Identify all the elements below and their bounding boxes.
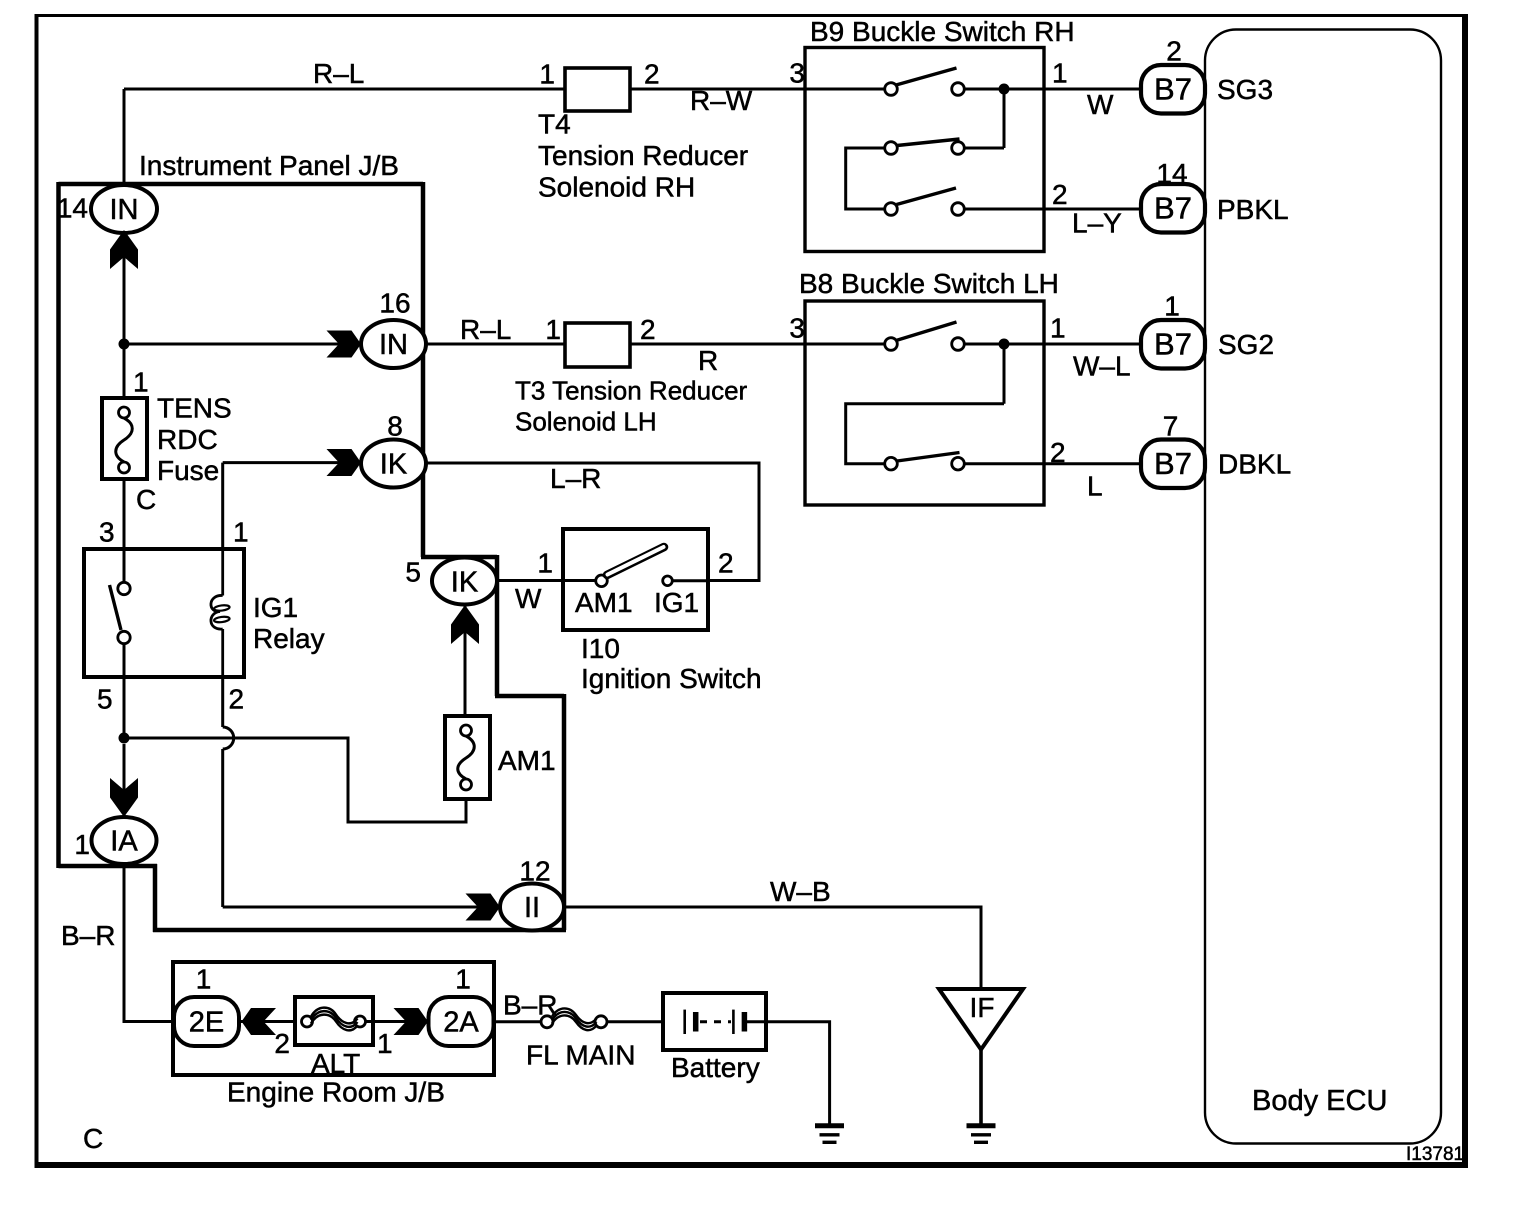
node B8 junction	[999, 339, 1010, 350]
svg-text:RDC: RDC	[157, 424, 218, 455]
wire FL MAIN to battery	[607, 1020, 684, 1023]
svg-text:2: 2	[718, 547, 734, 578]
wire R	[630, 343, 885, 346]
ignition switch I10 box	[563, 529, 708, 630]
wire B9 node to middle	[965, 89, 1142, 148]
svg-text:IG1: IG1	[253, 592, 298, 623]
svg-text:T3 Tension Reducer: T3 Tension Reducer	[515, 376, 748, 406]
svg-text:Tension Reducer: Tension Reducer	[538, 140, 748, 171]
Body ECU box	[1205, 30, 1441, 1144]
arrow down into IA	[110, 778, 138, 817]
connector 2E	[174, 964, 239, 1047]
wire IK8 row	[223, 463, 361, 549]
svg-text:3: 3	[789, 312, 805, 343]
connector IK 5	[405, 557, 497, 605]
svg-text:IK: IK	[380, 449, 408, 481]
svg-text:DBKL: DBKL	[1218, 449, 1291, 480]
svg-text:1: 1	[377, 1028, 393, 1059]
relay IG1 box	[84, 549, 244, 677]
svg-text:W–L: W–L	[1073, 350, 1131, 381]
svg-text:1: 1	[1050, 312, 1066, 343]
wire R-W	[630, 88, 885, 91]
svg-text:1: 1	[74, 829, 90, 860]
svg-text:Ignition Switch: Ignition Switch	[581, 663, 762, 694]
wire W to B7 SG3	[965, 208, 1142, 211]
wire W-B	[564, 907, 981, 989]
ignition contacts AM1 IG1	[596, 547, 708, 587]
solenoid T3	[565, 323, 630, 367]
svg-text:7: 7	[1163, 410, 1179, 441]
svg-text:R: R	[698, 345, 718, 376]
ground battery	[815, 1126, 844, 1143]
svg-text:1: 1	[196, 964, 212, 995]
fuse AM1	[445, 716, 556, 799]
wire 2E to ALT	[239, 1020, 307, 1023]
wire relay switch to bottom	[123, 644, 126, 738]
svg-text:B–R: B–R	[61, 920, 115, 951]
svg-text:SG3: SG3	[1217, 74, 1273, 105]
svg-text:2: 2	[640, 314, 656, 345]
svg-text:14: 14	[57, 193, 88, 224]
wire B9 left loop	[846, 148, 885, 209]
connector 2A	[429, 964, 494, 1047]
connector B7 SG2	[1141, 290, 1205, 368]
fuse TENS RDC	[102, 367, 232, 516]
relay switch contacts	[110, 582, 131, 643]
svg-text:I13781: I13781	[1406, 1144, 1464, 1165]
svg-text:5: 5	[405, 557, 421, 588]
svg-text:2: 2	[1052, 179, 1068, 210]
svg-text:1: 1	[539, 59, 555, 90]
svg-text:R–L: R–L	[313, 58, 364, 89]
connector IN 16	[361, 288, 426, 369]
B8 switch 1	[885, 322, 965, 350]
svg-text:I10: I10	[581, 633, 620, 664]
ground IF triangle	[939, 989, 1023, 1142]
B9 switch 1	[885, 68, 965, 95]
solenoid T4	[565, 68, 630, 111]
wire B8 routing	[846, 344, 1141, 464]
arrow up into IN 14	[110, 230, 138, 269]
svg-text:Battery: Battery	[671, 1052, 760, 1083]
svg-text:B7: B7	[1154, 446, 1192, 481]
Engine Room J/B box	[173, 962, 494, 1075]
svg-text:R–L: R–L	[460, 314, 511, 345]
wire 2A to FL MAIN	[494, 1020, 543, 1023]
svg-text:Body ECU: Body ECU	[1252, 1085, 1387, 1117]
svg-text:Instrument Panel J/B: Instrument Panel J/B	[139, 150, 399, 181]
svg-text:8: 8	[387, 411, 403, 442]
svg-text:1: 1	[545, 314, 561, 345]
svg-text:B7: B7	[1154, 327, 1192, 362]
wire L-R	[426, 463, 759, 581]
arrow up into IK 5	[451, 605, 479, 644]
svg-text:L: L	[1087, 470, 1103, 501]
svg-text:5: 5	[97, 684, 113, 715]
arrow left into 2E	[242, 1008, 277, 1035]
B9 switch 3	[885, 188, 965, 215]
fusible link ALT	[274, 997, 392, 1079]
svg-text:TENS: TENS	[157, 393, 232, 424]
fusible link FL MAIN	[526, 1008, 635, 1070]
wire L to B7 DBKL	[965, 462, 1142, 465]
svg-text:Engine Room J/B: Engine Room J/B	[227, 1077, 445, 1108]
svg-text:14: 14	[1156, 158, 1187, 189]
svg-text:2: 2	[1166, 36, 1182, 67]
svg-text:3: 3	[789, 58, 805, 89]
svg-text:2: 2	[274, 1028, 290, 1059]
wire relay pin2 down with hop	[221, 677, 224, 907]
Instrument Panel J/B outline	[59, 182, 567, 932]
B9 Buckle Switch RH box	[805, 48, 1044, 252]
svg-text:B7: B7	[1154, 191, 1192, 226]
svg-text:R–W: R–W	[690, 85, 753, 116]
svg-text:3: 3	[99, 517, 115, 548]
svg-text:B8 Buckle Switch LH: B8 Buckle Switch LH	[799, 268, 1059, 299]
connector B7 PBKL	[1141, 158, 1205, 233]
node junction bottom row	[119, 733, 130, 744]
connector B7 SG3	[1141, 36, 1205, 114]
relay coil	[211, 549, 230, 677]
svg-text:ALT: ALT	[311, 1048, 360, 1079]
svg-text:12: 12	[519, 856, 550, 887]
svg-text:1: 1	[537, 547, 553, 578]
arrow right into IK 8	[327, 449, 362, 476]
wire R-L top row	[124, 89, 565, 186]
connector II 12	[500, 856, 564, 931]
wire down to IA	[123, 744, 126, 817]
svg-text:IF: IF	[970, 992, 995, 1023]
svg-text:PBKL: PBKL	[1217, 194, 1289, 225]
connector IA	[74, 817, 156, 864]
svg-text:Solenoid RH: Solenoid RH	[538, 172, 695, 203]
svg-text:W–B: W–B	[770, 876, 831, 907]
wire battery to ground	[745, 1022, 830, 1124]
wire to IN 16	[124, 343, 361, 346]
svg-text:L–R: L–R	[550, 463, 601, 494]
svg-text:IG1: IG1	[654, 587, 699, 618]
svg-text:C: C	[136, 484, 156, 515]
wire II row	[223, 906, 500, 909]
wire junction to AM1 loop	[124, 738, 466, 822]
node B9 junction	[999, 84, 1010, 95]
wire ALT to 2A	[366, 1020, 428, 1023]
svg-text:2E: 2E	[189, 1007, 224, 1039]
svg-text:IK: IK	[451, 567, 479, 599]
svg-text:L–Y: L–Y	[1072, 208, 1122, 239]
wire R-L middle	[426, 343, 565, 346]
svg-text:T4: T4	[538, 109, 571, 140]
svg-text:16: 16	[379, 288, 410, 319]
wire main vertical	[123, 233, 126, 398]
connector IK 8	[361, 411, 426, 488]
wire IK5 down to AM1 fuse	[464, 604, 467, 716]
svg-text:1: 1	[1164, 290, 1180, 321]
svg-text:1: 1	[455, 964, 471, 995]
svg-text:C: C	[83, 1123, 103, 1154]
connector B7 DBKL	[1141, 410, 1205, 488]
svg-text:2: 2	[644, 59, 660, 90]
svg-text:Fuse: Fuse	[157, 455, 219, 486]
node junction at IN 16 row	[119, 339, 130, 350]
svg-text:IN: IN	[110, 194, 139, 226]
wire IK5 to ignition switch	[497, 579, 598, 582]
B9 switch 2	[885, 139, 965, 154]
svg-text:B9 Buckle Switch RH: B9 Buckle Switch RH	[810, 16, 1075, 47]
svg-text:Solenoid LH: Solenoid LH	[515, 407, 657, 437]
svg-text:1: 1	[1052, 58, 1068, 89]
svg-text:Relay: Relay	[253, 623, 325, 654]
svg-text:2A: 2A	[443, 1007, 479, 1039]
svg-text:IA: IA	[110, 826, 138, 858]
svg-text:II: II	[524, 892, 540, 924]
arrow right into 2A	[394, 1008, 429, 1035]
svg-text:W: W	[515, 583, 542, 614]
svg-text:AM1: AM1	[575, 587, 633, 618]
B8 switch 2	[885, 453, 965, 471]
arrow right into IN 16	[327, 331, 362, 358]
svg-text:FL MAIN: FL MAIN	[526, 1039, 635, 1070]
arrow right into II 12	[466, 894, 501, 921]
svg-text:2: 2	[229, 684, 245, 715]
battery	[663, 993, 766, 1083]
svg-text:1: 1	[233, 517, 249, 548]
connector IN 14	[57, 185, 157, 233]
wire fuse to relay	[123, 479, 126, 583]
svg-text:AM1: AM1	[498, 745, 556, 776]
svg-text:SG2: SG2	[1218, 329, 1274, 360]
svg-text:IN: IN	[379, 329, 408, 361]
B8 Buckle Switch LH box	[805, 301, 1044, 505]
svg-text:W: W	[1087, 89, 1114, 120]
wire hop arc	[223, 727, 234, 749]
wire IA to 2E	[124, 864, 174, 1022]
svg-text:B7: B7	[1154, 72, 1192, 107]
svg-text:1: 1	[133, 367, 149, 398]
